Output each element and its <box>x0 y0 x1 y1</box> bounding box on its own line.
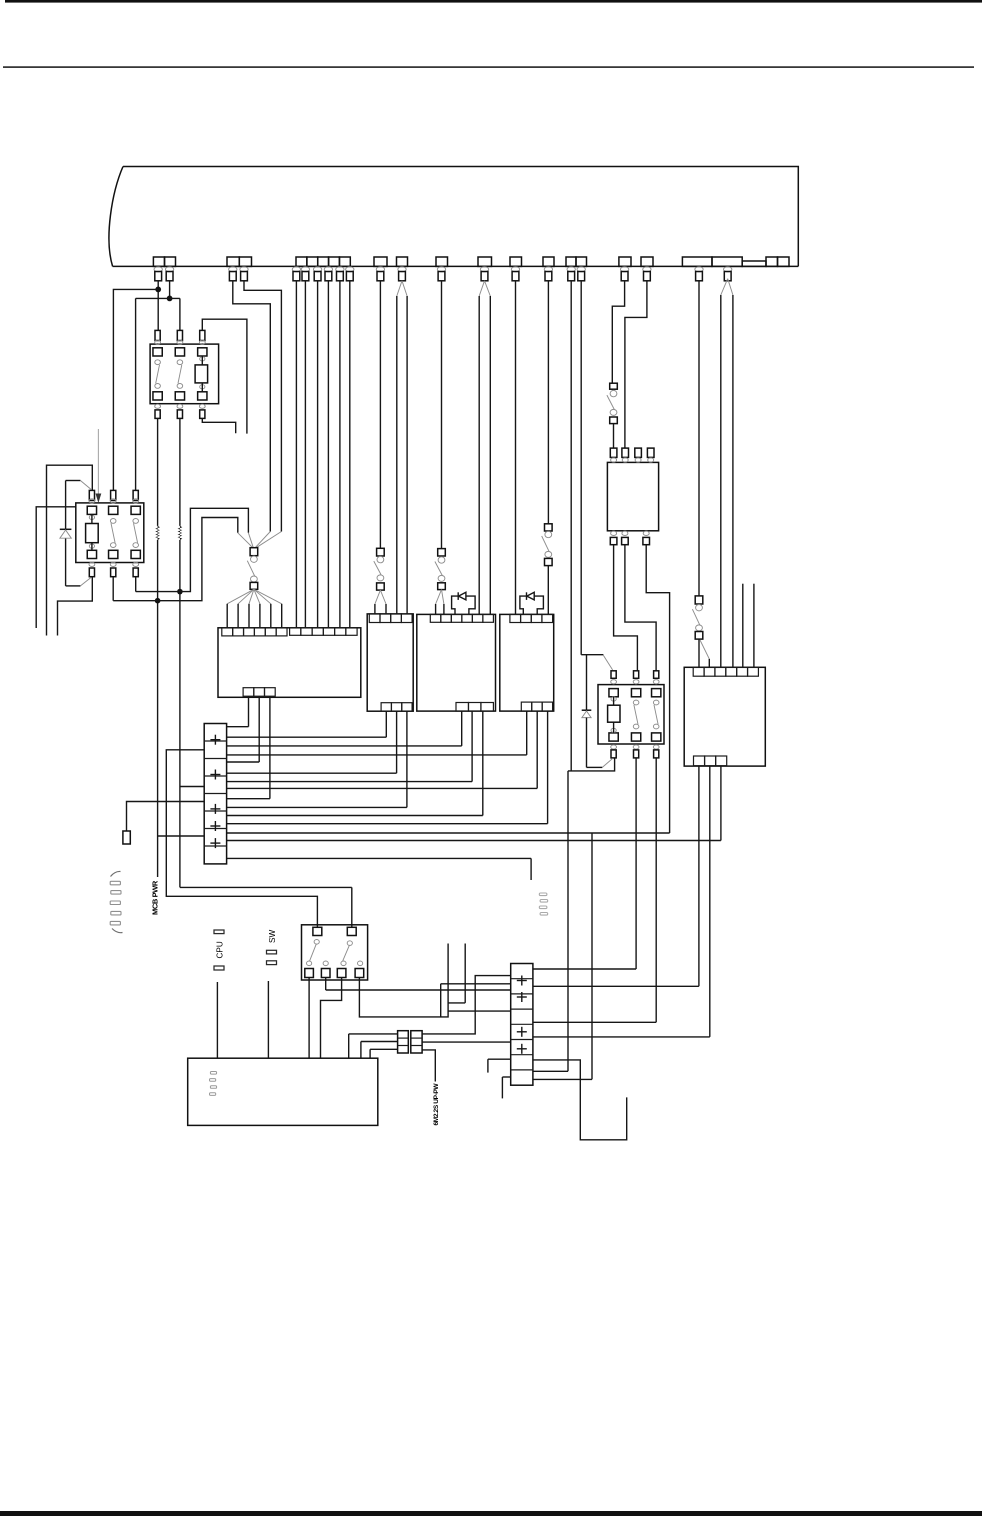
svg-text:SW: SW <box>268 930 277 943</box>
terminal B2 <box>239 257 251 266</box>
wire K4 left stub <box>36 507 76 628</box>
wire K <box>612 281 624 383</box>
wire J2 <box>581 281 612 670</box>
wire A1 branch <box>113 289 158 490</box>
wire C5 <box>339 281 341 628</box>
relay K4 <box>76 490 144 576</box>
wire K3 out3 <box>321 978 342 1059</box>
wire C2 <box>304 281 306 628</box>
label MCB PWR <box>150 880 159 915</box>
wire V1-L3 <box>127 802 205 832</box>
plug J2 <box>577 267 585 281</box>
terminal L <box>641 257 653 266</box>
wire V1-L1 <box>166 750 317 928</box>
connector CN7 <box>398 1031 423 1053</box>
wire K4 contact2 link <box>113 577 157 601</box>
diode D1 <box>60 481 92 586</box>
pcb box B3 <box>417 614 496 711</box>
wire K3 out1 <box>308 978 310 1059</box>
wire stair2 <box>448 944 465 1003</box>
plug K <box>620 267 628 281</box>
plug H <box>511 267 519 281</box>
connector CN2 <box>374 548 386 614</box>
plug M1 <box>695 267 703 281</box>
terminal O2 <box>778 257 790 266</box>
wire CPU stub <box>216 982 218 1058</box>
plug F <box>437 267 445 281</box>
terminal O1 <box>766 257 778 266</box>
plug P-left <box>123 831 130 844</box>
terminal H <box>510 257 522 266</box>
terminal strip C <box>296 257 350 266</box>
wire J1 lower <box>533 771 568 1071</box>
pcb box B5 <box>684 667 765 766</box>
connector CN3 <box>435 549 445 615</box>
wire B5 out3 <box>227 766 721 841</box>
label open-paren list <box>110 871 122 932</box>
wire CN7-L2 <box>361 1042 398 1059</box>
plug C5 <box>336 267 344 281</box>
wire V1-L4 <box>158 835 205 837</box>
wire <box>5 0 982 3</box>
label UP-PW <box>433 1083 440 1126</box>
junction dot A2 <box>167 296 173 302</box>
terminal A2 <box>165 257 176 266</box>
wire B3t3 <box>227 711 483 815</box>
terminal K <box>619 257 631 266</box>
plug E <box>398 267 406 281</box>
terminal B1 <box>227 257 239 266</box>
cpu board B7 <box>188 1058 378 1125</box>
wire <box>3 66 974 68</box>
wire SW stub <box>267 981 269 1058</box>
relay K3 <box>302 925 368 980</box>
wire B2t3 <box>227 711 407 807</box>
terminal A1 <box>153 257 164 266</box>
wire M1 <box>698 281 700 596</box>
wire B1 <box>233 281 270 532</box>
wire B1t2 <box>227 696 260 762</box>
terminal J1 <box>566 257 576 266</box>
pcb box B4 <box>500 614 554 711</box>
wire M2 fan <box>721 279 733 668</box>
plug D <box>376 267 384 281</box>
wire K1 coil bottom <box>202 418 235 433</box>
wire B6 out1 <box>614 545 638 671</box>
wire B4t2 <box>227 711 538 788</box>
wire V1 tail <box>227 858 531 880</box>
wire J1 <box>568 281 615 771</box>
plug C4 <box>324 267 332 281</box>
terminal M1 <box>682 257 712 266</box>
wire <box>0 1511 982 1516</box>
resistor R1 <box>155 526 160 540</box>
wire B3t1 <box>227 711 462 746</box>
wire V2 dangle2 <box>502 1077 510 1098</box>
wire stair3 <box>448 1010 511 1012</box>
wire B2t2 <box>227 711 397 773</box>
wire A2 <box>169 281 171 299</box>
wire L <box>625 281 647 448</box>
svg-text:CPU: CPU <box>216 941 225 958</box>
terminal strip V2 <box>511 964 533 1086</box>
terminal J2 <box>576 257 587 266</box>
wire I <box>547 281 549 524</box>
control box B6 <box>607 448 658 545</box>
wire K4 coil return <box>58 577 93 636</box>
wire CN7-R3 <box>422 1050 435 1082</box>
annotation arrow <box>96 429 102 503</box>
wire E fan <box>397 281 407 614</box>
pcb box B1 <box>218 628 361 698</box>
plug A1 <box>154 267 162 281</box>
wire C4 <box>327 281 329 628</box>
plug J1 <box>567 267 575 281</box>
terminal G <box>478 257 492 266</box>
terminal N <box>742 261 766 266</box>
plug C2 <box>301 267 309 281</box>
wire H <box>515 281 517 615</box>
label CPU <box>214 930 225 970</box>
wire staple inner <box>158 518 238 601</box>
diode D4 loop <box>520 592 544 614</box>
wire G fan <box>479 281 490 615</box>
wire K2 out3 <box>533 758 656 1022</box>
terminal F <box>436 257 448 266</box>
wire CN7-L1 <box>349 1034 398 1058</box>
terminal M2 <box>712 257 742 266</box>
wire K4 contact3 link <box>136 577 180 592</box>
svg-text:6M2.2S UP-PW: 6M2.2S UP-PW <box>433 1083 440 1126</box>
wire K3 out2 <box>326 978 511 991</box>
wire B3t2 <box>227 711 473 782</box>
svg-text:MCB PWR: MCB PWR <box>150 880 159 915</box>
connector CN5 <box>607 383 617 448</box>
wire D <box>379 281 381 549</box>
plug B2 <box>240 267 248 281</box>
wire K3 out4 <box>359 944 448 1017</box>
terminal E <box>397 257 408 266</box>
terminal I <box>543 257 554 266</box>
junction dot A1 <box>155 287 161 293</box>
plug A2 <box>165 267 173 281</box>
resistor R2 <box>178 526 183 540</box>
wire K2 out2 <box>533 758 636 969</box>
wire B1t1 <box>227 696 249 727</box>
wire stub pair <box>743 584 754 668</box>
plug M2 <box>724 267 732 281</box>
wire C1 <box>295 281 297 628</box>
plug C1 <box>292 267 300 281</box>
wire staple outer <box>180 508 249 591</box>
connector CN1 <box>227 532 282 628</box>
wire B2 <box>244 281 281 532</box>
plug B1 <box>229 267 237 281</box>
main harness bus box <box>109 167 798 267</box>
plug L <box>643 267 651 281</box>
wire CN7-L3 <box>370 1049 398 1058</box>
terminal D <box>374 257 387 266</box>
wire B4t1 <box>227 711 527 755</box>
wire F <box>441 281 443 549</box>
connector CN6 <box>692 596 709 667</box>
wire B1t3 <box>227 696 270 799</box>
terminal strip V1 <box>204 724 226 864</box>
wire stair1 <box>441 984 511 1017</box>
diode D3 loop <box>452 592 476 614</box>
junction dot contact2 <box>177 589 183 595</box>
wire B5 out2 <box>533 766 710 1037</box>
wire C6 <box>349 281 351 628</box>
wire bus bar left <box>227 832 670 834</box>
wire B2t1 <box>227 711 387 737</box>
wire CN7-R1 <box>422 976 511 1034</box>
relay K1 <box>150 330 219 418</box>
wire K1 contact1 <box>157 418 159 877</box>
wire K1 coil top <box>202 319 247 433</box>
connector CN4 <box>542 524 552 615</box>
plug C6 <box>346 267 354 281</box>
wire B6 out2 <box>625 545 656 671</box>
wire CN7-R2 <box>422 1041 511 1043</box>
wire B6 out3 <box>646 545 669 833</box>
label SW <box>267 930 278 965</box>
wire K4 coil feed <box>47 465 93 635</box>
pcb box B2 <box>367 614 413 711</box>
relay K2 <box>598 671 664 758</box>
wire B4t3 <box>227 711 548 824</box>
wire A2 branch <box>136 298 180 490</box>
plug C3 <box>313 267 321 281</box>
label dash stack right <box>539 893 547 915</box>
wire K1 contact2 <box>180 418 352 927</box>
plug I <box>544 267 552 281</box>
wire V2 dangle1 <box>488 1059 511 1072</box>
wire B5 out1 <box>533 766 699 987</box>
wire J2 lower <box>533 833 592 1079</box>
wire V1-L2 <box>180 786 204 788</box>
plug G <box>480 267 488 281</box>
wire A1 <box>157 281 159 331</box>
diode D2 <box>582 655 613 768</box>
junction dot contact1 <box>155 598 161 604</box>
wire C3 <box>317 281 319 628</box>
wire V2 hook <box>533 1060 627 1140</box>
